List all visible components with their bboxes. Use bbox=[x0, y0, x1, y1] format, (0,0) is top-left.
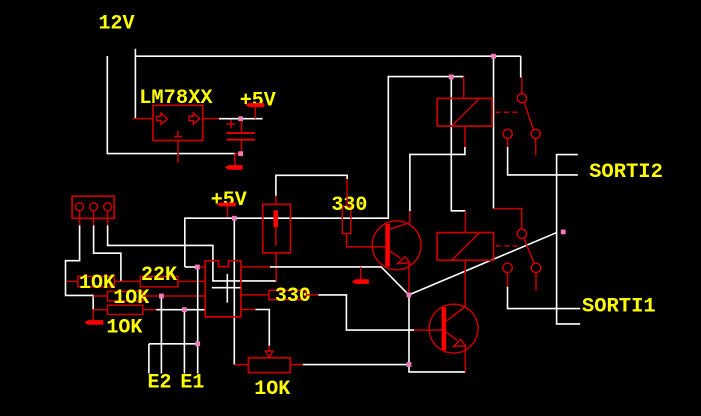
regulator input pin bbox=[132, 118, 153, 120]
power port +5V bar (second) bbox=[216, 203, 235, 207]
junction R4 output bbox=[182, 307, 187, 312]
wire E1 stub bbox=[197, 267, 199, 374]
wire +5V feed into IC bbox=[185, 266, 198, 268]
svg-text:1OK: 1OK bbox=[254, 378, 290, 401]
IC U1 body with notch bbox=[205, 261, 241, 317]
wire LED to 330 resistor bbox=[276, 175, 347, 196]
regulator U2 LM78XX body bbox=[153, 105, 203, 140]
switch SW2 bbox=[503, 229, 541, 272]
wire connector pin2 to divider node bbox=[94, 225, 121, 281]
wire pot to emitter node bbox=[303, 364, 409, 366]
wire R4 to IC bbox=[156, 309, 205, 311]
resistor R6 330 body bbox=[269, 290, 306, 299]
resistor R2 22K body bbox=[140, 276, 178, 287]
resistor R5 bottom pin to Q1 base bbox=[347, 234, 386, 247]
regulator output pin bbox=[203, 118, 219, 120]
svg-text:E1: E1 bbox=[180, 372, 204, 395]
potentiometer R7 wiper arrow bbox=[266, 346, 273, 358]
svg-text:+5V: +5V bbox=[240, 90, 276, 113]
capacitor C1 top lead bbox=[241, 119, 243, 133]
wire +5V output net bbox=[219, 118, 263, 120]
wire 12V drop to switch SW2 common bbox=[493, 56, 495, 208]
potentiometer R7 body bbox=[248, 358, 290, 373]
ground symbol at Q1 bbox=[352, 267, 369, 284]
wire R3 node down to E2 bbox=[160, 296, 162, 374]
wire diagonal to marker point bbox=[409, 233, 556, 295]
resistor R3 left pin bbox=[93, 295, 107, 297]
pin stub +5V into IC bbox=[197, 266, 205, 268]
wire +5V rail down to potentiometer bbox=[233, 218, 235, 365]
wire SW1 left to SORTI2 bbox=[508, 147, 578, 175]
wire 12V vertical stub to regulator input bbox=[134, 49, 136, 119]
potentiometer R7 right pin bbox=[290, 364, 303, 366]
wire R4 node down to E1 bbox=[183, 310, 185, 374]
svg-text:1OK: 1OK bbox=[113, 287, 149, 310]
regulator ground pin stub bbox=[177, 141, 179, 163]
switch SW1 left pin bbox=[507, 138, 509, 147]
junction at capacitor top bbox=[238, 116, 243, 121]
power port +5V stem (top) bbox=[254, 107, 256, 119]
junction +5V at rail bbox=[232, 216, 237, 221]
wire connector pin1 to ground net bbox=[66, 225, 94, 309]
ground symbol near capacitor bbox=[225, 154, 243, 170]
wire 12V top rail bbox=[135, 55, 520, 57]
resistor R1 right pin bbox=[114, 280, 121, 282]
wire E-group horizontal bbox=[149, 343, 198, 345]
switch SW1 common pin bbox=[521, 78, 523, 94]
power port +5V bar (top) bbox=[245, 103, 264, 107]
transistor Q1 bbox=[372, 221, 421, 270]
relay K2 coil bbox=[437, 233, 493, 261]
LED D1 bottom pin bbox=[275, 253, 277, 281]
power port +5V stem (second) bbox=[227, 206, 229, 218]
resistor R2 right pin bbox=[178, 280, 205, 282]
wire E2 stub bbox=[148, 344, 150, 374]
resistor R1 left pin bbox=[66, 280, 78, 282]
svg-text:SORTI2: SORTI2 bbox=[589, 161, 663, 184]
resistor R4 right pin bbox=[143, 309, 156, 311]
wire R6 to Q2 base bbox=[318, 295, 414, 330]
wire Q1 collector bbox=[409, 211, 411, 223]
junction on 12V rail bbox=[491, 54, 496, 59]
wire +5V rail to relay coils bbox=[185, 77, 464, 267]
svg-text:330: 330 bbox=[275, 285, 311, 308]
junction on relay feed bbox=[449, 75, 454, 80]
svg-text:22K: 22K bbox=[141, 264, 177, 287]
junction potentiometer wire bbox=[407, 362, 412, 367]
wire crossing IC horizontal bbox=[212, 287, 241, 289]
svg-text:1OK: 1OK bbox=[106, 317, 142, 340]
resistor R2 left pin bbox=[121, 280, 140, 282]
wire rail corner down to switch SW1 common bbox=[520, 56, 522, 77]
wire branch to relay K2 coil bbox=[451, 77, 465, 211]
resistor R6 left pin from IC bbox=[241, 294, 269, 296]
wire connector pin3 across IC bbox=[108, 225, 277, 281]
LED D1 boxed indicator bbox=[263, 204, 291, 253]
relay K2 actuation dashes bbox=[496, 245, 519, 247]
switch SW2 right stub bbox=[535, 273, 537, 291]
resistor R4 10K body bbox=[108, 305, 143, 314]
resistor R6 right pin bbox=[306, 294, 318, 296]
svg-text:330: 330 bbox=[331, 194, 367, 217]
junction R3 output bbox=[159, 294, 164, 299]
capacitor C1 plates bbox=[227, 132, 256, 134]
pin Q2 base stub bbox=[414, 329, 442, 331]
switch SW1 right stub bbox=[535, 138, 537, 155]
wire Q2 emitter bbox=[464, 347, 466, 372]
junction +5V at IC bbox=[195, 265, 200, 270]
junction above E1 bbox=[195, 341, 200, 346]
resistor R5 330 body (vertical) bbox=[342, 206, 351, 233]
wire capacitor bottom to ground bbox=[235, 153, 242, 155]
connector J1 pin stubs bbox=[79, 211, 81, 226]
connector J1 body bbox=[72, 196, 114, 218]
wire SORTI2 upper terminal bbox=[557, 155, 581, 324]
resistor R1 10K body bbox=[78, 276, 114, 287]
capacitor C1 polarity plus bbox=[227, 120, 236, 129]
wire IC pin to potentiometer wiper bbox=[241, 309, 256, 311]
switch SW2 left pin bbox=[507, 273, 509, 287]
wire IC output to Q1 emitter node bbox=[241, 266, 270, 268]
resistor R3 10K body bbox=[108, 291, 143, 301]
LED D1 top pin bbox=[275, 196, 277, 205]
ground symbol at divider bbox=[84, 310, 103, 325]
resistor R5 top pin bbox=[346, 179, 348, 206]
potentiometer R7 left pin bbox=[234, 364, 248, 366]
svg-text:E2: E2 bbox=[148, 372, 172, 395]
resistor R4 left pin bbox=[93, 309, 107, 311]
svg-text:SORTI1: SORTI1 bbox=[582, 295, 656, 318]
relay K1 coil bbox=[437, 98, 492, 126]
relay K1 top pin bbox=[463, 77, 465, 99]
transistor Q2 bbox=[429, 304, 478, 353]
wire crossing IC vertical bbox=[226, 274, 228, 303]
relay K1 actuation dashes bbox=[496, 111, 518, 113]
relay K1 bottom pin bbox=[464, 126, 466, 147]
wire Q2 collector to relay K2 bbox=[464, 260, 466, 306]
switch SW2 common pin bbox=[494, 209, 522, 230]
relay K2 top pin bbox=[464, 211, 466, 233]
resistor R3 right pin bbox=[143, 295, 205, 297]
wire Q1 emitter down to junction bbox=[408, 264, 410, 293]
wire 12V input drop and lower gnd rail bbox=[107, 56, 235, 154]
capacitor C1 bottom lead bbox=[241, 141, 243, 154]
wire emitter node down to Q2 emitter bbox=[409, 295, 465, 372]
svg-text:+5V: +5V bbox=[211, 189, 247, 212]
switch SW1 bbox=[503, 94, 540, 139]
svg-text:12V: 12V bbox=[99, 13, 135, 36]
junction at capacitor bottom bbox=[238, 151, 243, 156]
marker point bbox=[561, 230, 566, 235]
wire SW2 left to SORTI1 bbox=[508, 287, 581, 309]
wire relay K1 to Q1 collector bbox=[410, 147, 465, 211]
junction Q1 emitter node bbox=[407, 293, 412, 298]
